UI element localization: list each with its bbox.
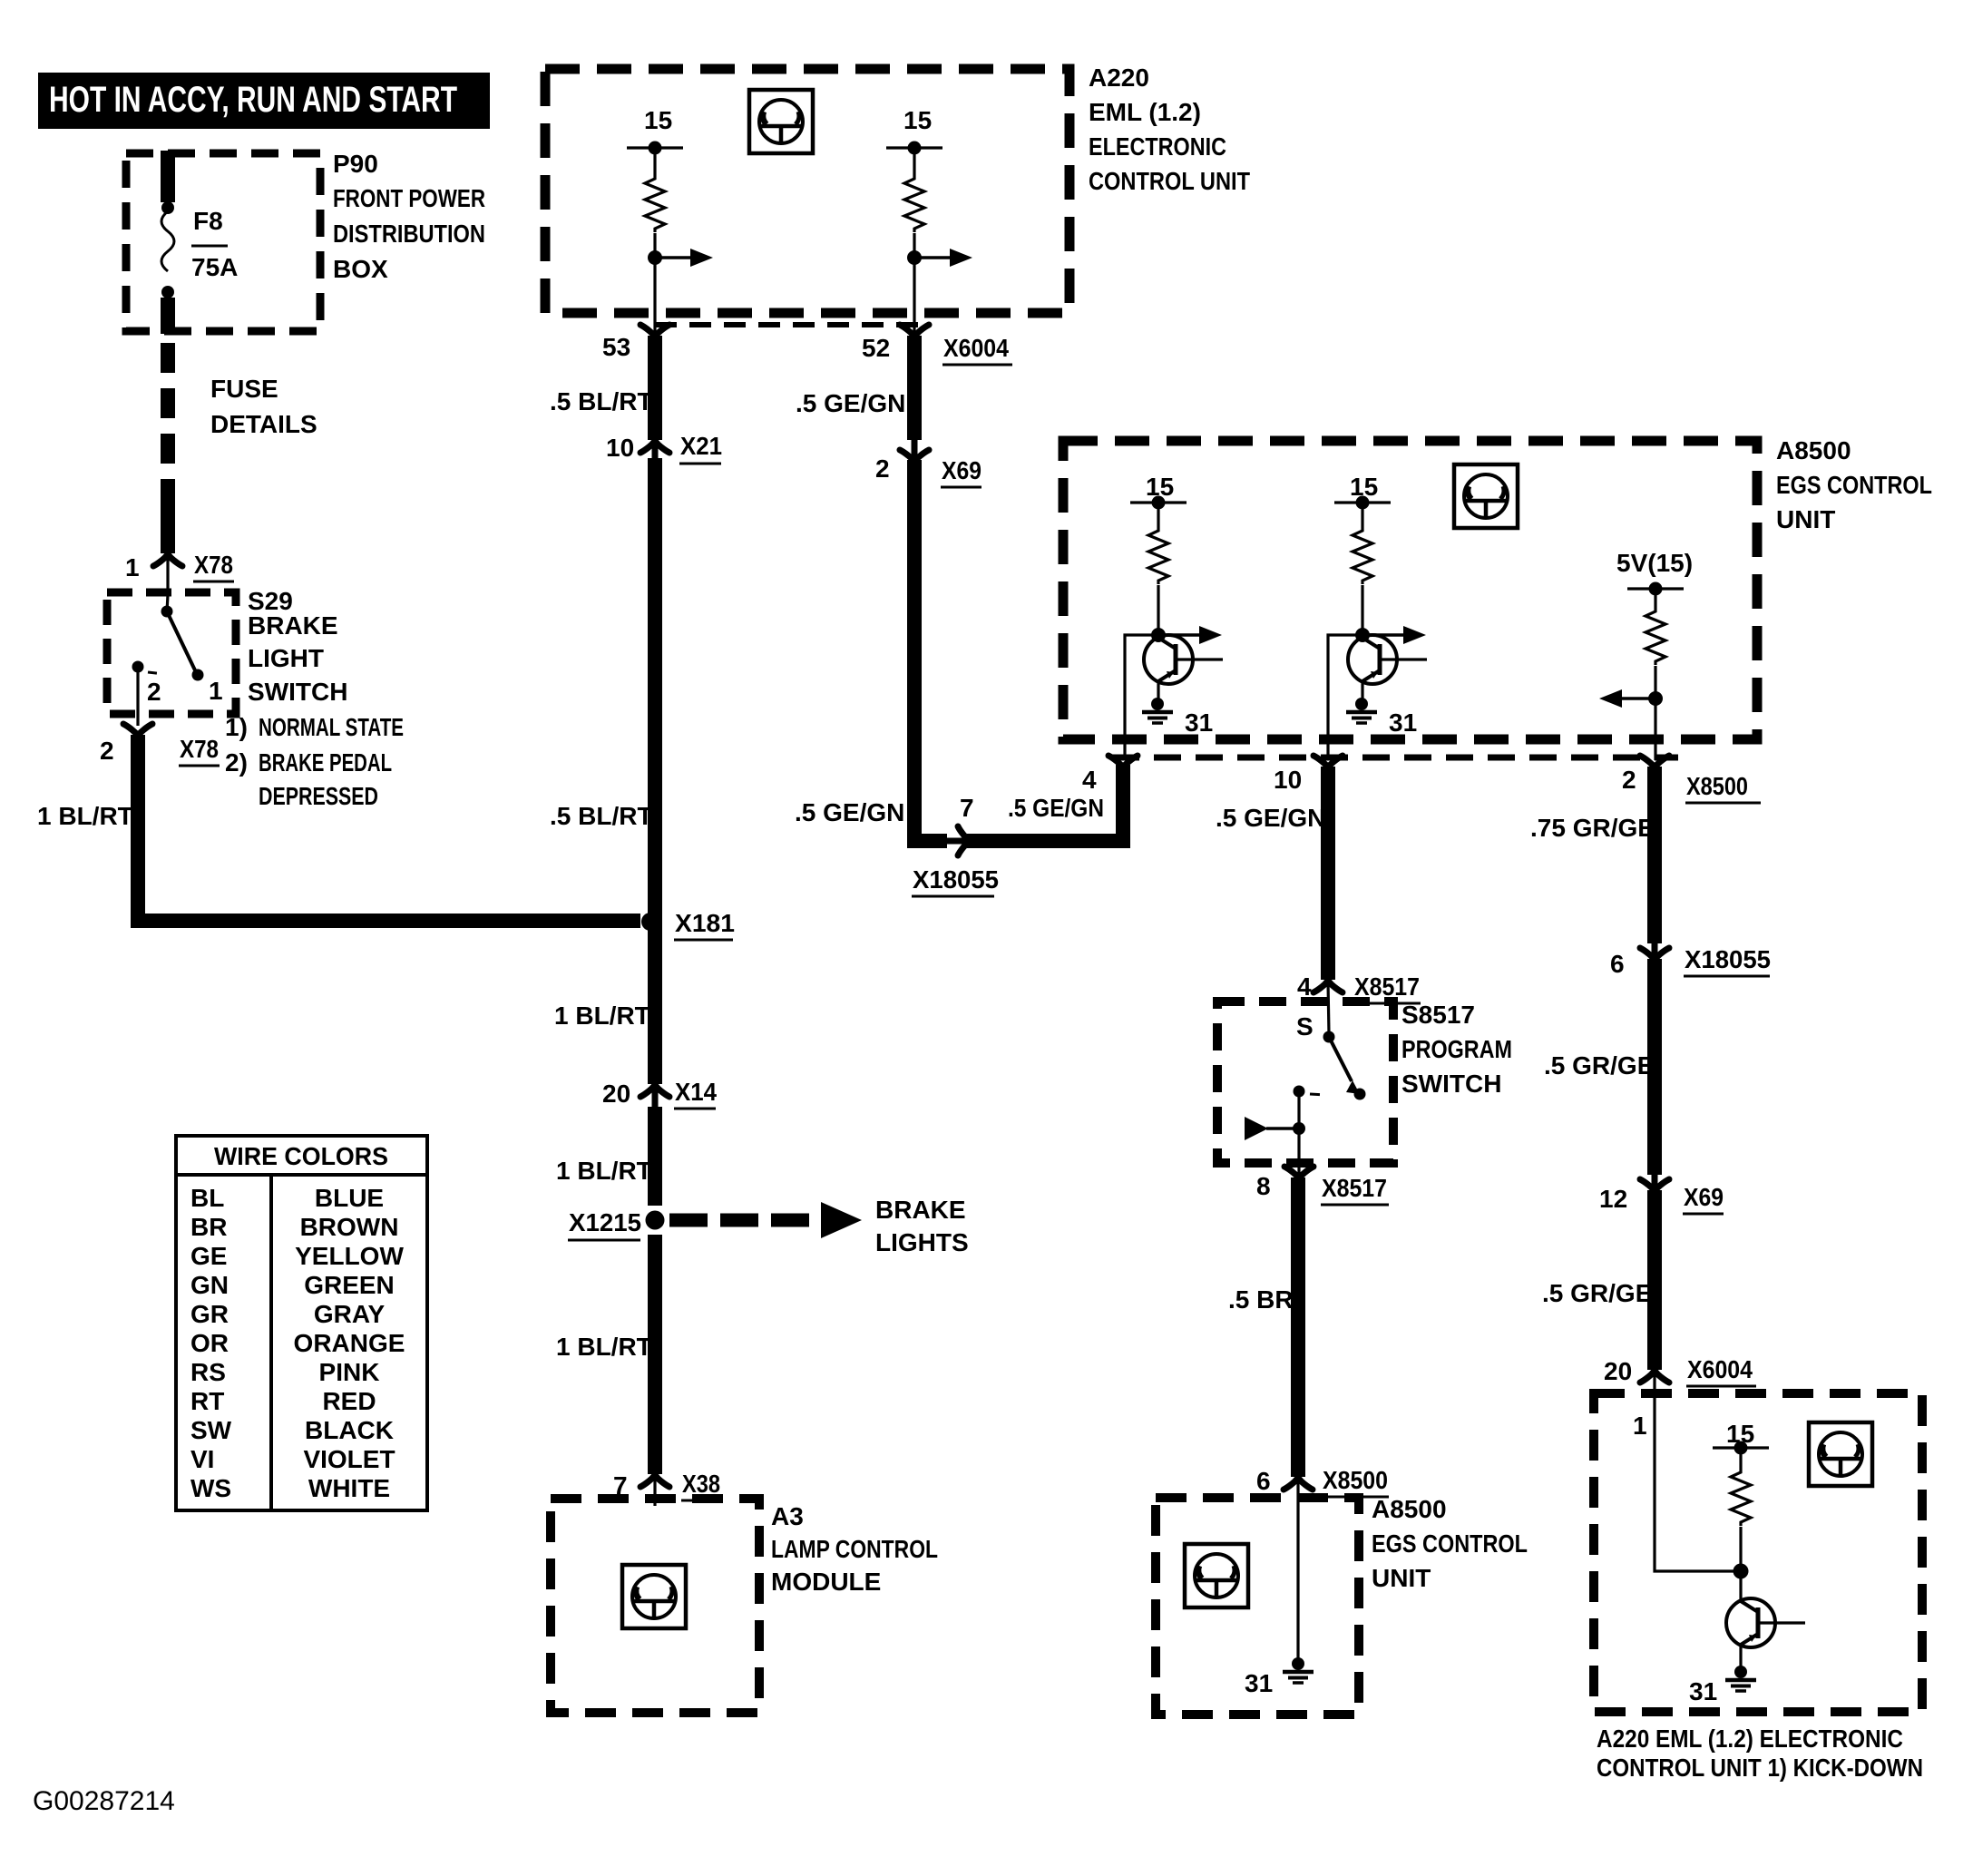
svg-text:A220: A220	[1089, 64, 1149, 92]
connector X6004 pin 52	[862, 325, 1012, 365]
wire: hot feed into fuse	[161, 151, 175, 202]
svg-text:YELLOW: YELLOW	[295, 1242, 404, 1270]
connector X8500 bar	[1112, 755, 1678, 761]
ground 31 (EGS left)	[1142, 698, 1213, 737]
svg-text:P90: P90	[333, 150, 378, 178]
wire: fuse output (dashed detail wire)	[161, 298, 175, 334]
svg-text:MODULE: MODULE	[771, 1568, 881, 1596]
svg-text:X21: X21	[680, 432, 722, 460]
svg-text:31: 31	[1185, 708, 1213, 737]
connector X78 pin 1	[125, 551, 234, 595]
wire .5 GE/GN (pin 10 to X8517 pin 4)	[1321, 767, 1335, 980]
svg-text:GE: GE	[190, 1242, 227, 1270]
resistor (EGS left)	[1148, 527, 1168, 584]
wire	[913, 148, 915, 175]
control unit logo (A8500 bottom)	[1185, 1544, 1248, 1607]
svg-text:X38: X38	[682, 1470, 720, 1498]
wire	[1654, 589, 1656, 608]
connector X78 pin 2	[100, 724, 220, 766]
node X1215	[568, 1208, 665, 1240]
wire	[1361, 503, 1363, 527]
svg-text:X6004: X6004	[943, 334, 1009, 362]
node X181	[641, 909, 735, 940]
node (EGS right junction)	[1648, 691, 1663, 706]
svg-text:8: 8	[1256, 1172, 1271, 1200]
svg-text:EGS CONTROL: EGS CONTROL	[1776, 471, 1932, 499]
arrow: output right (EGS mid)	[1362, 626, 1426, 644]
svg-text:X78: X78	[180, 735, 219, 763]
svg-text:A8500: A8500	[1372, 1495, 1447, 1523]
svg-text:A220 EML (1.2) ELECTRONIC: A220 EML (1.2) ELECTRONIC	[1597, 1725, 1903, 1753]
control unit logo (kick-down)	[1809, 1422, 1872, 1486]
svg-text:UNIT: UNIT	[1776, 505, 1835, 533]
connector X6004 pin 20	[1604, 1355, 1756, 1402]
wire .5 GE/GN (52 to X69)	[907, 336, 922, 440]
svg-text:LIGHTS: LIGHTS	[875, 1228, 969, 1256]
svg-text:.5 GE/GN: .5 GE/GN	[1008, 794, 1104, 822]
svg-text:10: 10	[606, 434, 634, 462]
svg-text:1: 1	[209, 677, 223, 705]
wire	[1361, 585, 1363, 639]
svg-text:52: 52	[862, 334, 890, 362]
svg-text:31: 31	[1245, 1669, 1273, 1697]
svg-text:GN: GN	[190, 1271, 229, 1299]
wire trunk 1 BL/RT (X21 down to X181)	[648, 458, 662, 922]
svg-text:BRAKE: BRAKE	[248, 611, 338, 640]
svg-text:PINK: PINK	[319, 1358, 380, 1386]
connector X6004 pin 53	[602, 325, 669, 361]
wire	[1157, 585, 1159, 639]
wire emitter to ground	[1361, 680, 1363, 699]
connector X69 pin 12	[1599, 1175, 1724, 1214]
svg-text:X6004: X6004	[1687, 1355, 1753, 1383]
svg-text:G00287214: G00287214	[33, 1786, 175, 1816]
svg-text:1 BL/RT: 1 BL/RT	[554, 1002, 650, 1030]
svg-text:VI: VI	[190, 1445, 214, 1473]
connector X38 pin 7	[613, 1470, 722, 1506]
svg-text:A8500: A8500	[1776, 436, 1851, 464]
svg-text:75A: 75A	[191, 253, 238, 281]
svg-text:RED: RED	[322, 1387, 376, 1415]
svg-text:UNIT: UNIT	[1372, 1564, 1431, 1592]
svg-text:X8500: X8500	[1323, 1466, 1388, 1494]
wire .5 GR/GE (X69 to X6004 pin 20)	[1647, 1190, 1662, 1370]
svg-text:4: 4	[1082, 766, 1097, 794]
svg-text:SWITCH: SWITCH	[1401, 1070, 1501, 1098]
connector X6004 bar	[655, 322, 931, 327]
svg-text:.5 GE/GN: .5 GE/GN	[796, 389, 905, 417]
svg-text:1: 1	[125, 553, 140, 581]
wire .5 GE/GN (X18055 to EGS pin 4)	[967, 765, 1123, 841]
connector X18055 pin 6	[1610, 943, 1771, 978]
arrow: output to right (EML right)	[914, 249, 972, 267]
svg-text:2: 2	[1622, 766, 1636, 794]
svg-text:VIOLET: VIOLET	[303, 1445, 395, 1473]
svg-text:OR: OR	[190, 1329, 229, 1357]
svg-text:X78: X78	[194, 551, 233, 579]
resistor (EML right)	[904, 175, 924, 232]
svg-text:5V(15): 5V(15)	[1616, 549, 1693, 577]
fuse F8 75A	[161, 201, 238, 298]
arrow: output to left (EGS right)	[1599, 689, 1655, 708]
wire 1 BL/RT from switch to X181	[138, 735, 640, 921]
resistor (EGS right)	[1646, 608, 1665, 665]
control unit A220 EML box (dashed)	[545, 69, 1069, 313]
node (EGS left junction)	[1151, 628, 1166, 642]
svg-text:BL: BL	[190, 1184, 224, 1212]
connector X8500 pin 10	[1274, 756, 1343, 794]
svg-text:1 BL/RT: 1 BL/RT	[37, 802, 133, 830]
svg-text:WS: WS	[190, 1474, 231, 1502]
svg-text:2: 2	[147, 678, 161, 706]
ground 31 (kick-down)	[1689, 1666, 1756, 1705]
svg-text:.5 BL/RT: .5 BL/RT	[550, 387, 653, 415]
connector X69 pin 2	[875, 440, 981, 487]
svg-text:15: 15	[644, 106, 672, 134]
svg-text:X69: X69	[942, 456, 981, 484]
svg-text:20: 20	[602, 1080, 630, 1108]
wire .5 GR/GE (X18055 to X69 pin 12)	[1647, 959, 1662, 1175]
wire .5 GE/GN (X69 down to X18055 corner)	[914, 460, 947, 841]
EGS control unit A8500 bottom box (dashed)	[1156, 1498, 1359, 1715]
label S29 BRAKE LIGHT SWITCH	[225, 587, 404, 810]
svg-text:BRAKE PEDAL: BRAKE PEDAL	[259, 748, 392, 777]
svg-text:1: 1	[1633, 1412, 1647, 1440]
switch S8517 contacts	[1294, 1012, 1366, 1159]
svg-text:2: 2	[875, 454, 890, 483]
connector X8517 pin 8	[1256, 1159, 1389, 1205]
svg-text:CONTROL UNIT: CONTROL UNIT	[1089, 167, 1250, 195]
svg-text:ORANGE: ORANGE	[294, 1329, 405, 1357]
wire emitter to ground	[1739, 1644, 1742, 1667]
wire to ground (A8500 bottom)	[1296, 1506, 1299, 1658]
label P90 FRONT POWER DISTRIBUTION BOX	[333, 150, 485, 283]
control unit logo (EML)	[749, 90, 813, 153]
wire: junction to pin 4	[1125, 635, 1158, 760]
svg-text:EGS CONTROL: EGS CONTROL	[1372, 1529, 1528, 1558]
svg-text:BRAKE: BRAKE	[875, 1196, 966, 1224]
svg-text:31: 31	[1389, 708, 1417, 737]
svg-text:DISTRIBUTION: DISTRIBUTION	[333, 220, 485, 248]
wire	[653, 148, 656, 175]
svg-text:DETAILS: DETAILS	[210, 410, 317, 438]
svg-text:GRAY: GRAY	[314, 1300, 386, 1328]
svg-text:.75 GR/GE: .75 GR/GE	[1530, 814, 1655, 842]
node: EML right output junction	[907, 250, 922, 265]
svg-text:GR: GR	[190, 1300, 229, 1328]
label A8500 EGS CONTROL UNIT	[1776, 436, 1932, 533]
connector X8500 pin 4	[1082, 756, 1138, 794]
arrow: output right (EGS left)	[1158, 626, 1222, 644]
svg-text:S8517: S8517	[1401, 1001, 1475, 1029]
fuse box P90 (dashed)	[126, 153, 320, 331]
svg-text:20: 20	[1604, 1357, 1632, 1385]
wire	[1654, 666, 1656, 760]
node (kick-down junction)	[1733, 1564, 1749, 1579]
wire emitter to ground	[1157, 680, 1159, 699]
svg-text:SWITCH: SWITCH	[248, 678, 347, 706]
resistor (EML left)	[645, 175, 665, 232]
svg-text:HOT IN ACCY, RUN AND START: HOT IN ACCY, RUN AND START	[49, 80, 457, 120]
EGS control unit A8500 box (dashed)	[1063, 441, 1757, 739]
wire	[653, 233, 656, 332]
transistor Q3 (kick-down)	[1726, 1598, 1805, 1647]
control unit A220 kick-down box (dashed)	[1594, 1393, 1922, 1712]
connector X8517 pin 4	[1297, 972, 1421, 1034]
connector X21 pin 10	[606, 432, 722, 464]
svg-text:53: 53	[602, 333, 630, 361]
svg-text:.5 GR/GE: .5 GR/GE	[1544, 1051, 1654, 1080]
wire: junction to pin 10	[1328, 635, 1362, 760]
svg-text:4: 4	[1297, 972, 1312, 1001]
svg-text:X8500: X8500	[1686, 772, 1748, 800]
program switch S8517 box (dashed)	[1217, 1002, 1393, 1163]
svg-text:1): 1)	[225, 713, 248, 741]
svg-text:BOX: BOX	[333, 255, 388, 283]
lamp control module A3 box (dashed)	[551, 1499, 759, 1713]
svg-text:SW: SW	[190, 1416, 232, 1444]
ground 31 (EGS mid)	[1346, 698, 1417, 737]
label A220 EML (1.2) ELECTRONIC CONTROL UNIT 1) KICK-DOWN	[1597, 1725, 1923, 1782]
svg-text:RT: RT	[190, 1387, 224, 1415]
svg-text:F8: F8	[193, 207, 223, 235]
svg-text:X181: X181	[675, 909, 735, 937]
arrow: output to right (EML left)	[655, 249, 713, 267]
wire .75 GR/GE (pin 2 down)	[1647, 767, 1662, 943]
svg-text:A3: A3	[771, 1502, 804, 1530]
svg-text:WIRE COLORS: WIRE COLORS	[214, 1142, 388, 1170]
ground 31 (A8500 bottom)	[1245, 1657, 1314, 1697]
wire .5 BR (X8517 to X8500 pin 6)	[1291, 1177, 1305, 1477]
svg-text:BR: BR	[190, 1213, 227, 1241]
svg-text:EML (1.2): EML (1.2)	[1089, 98, 1201, 126]
svg-text:31: 31	[1689, 1677, 1717, 1705]
svg-text:12: 12	[1599, 1185, 1627, 1213]
arrow input (S8517)	[1245, 1117, 1305, 1140]
resistor (kick-down)	[1731, 1469, 1751, 1526]
svg-text:10: 10	[1274, 766, 1302, 794]
svg-text:X1215: X1215	[569, 1208, 641, 1236]
wire	[1157, 503, 1159, 527]
svg-text:2: 2	[100, 737, 114, 765]
connector X18055 pin 7 (horizontal)	[912, 794, 999, 896]
brake light switch S29 (dashed box)	[107, 592, 236, 714]
wire pin 1 into kick-down	[1633, 1402, 1741, 1571]
wire 1 BL/RT (X1215 to X38)	[648, 1235, 662, 1474]
connector X14 pin 20	[602, 1078, 717, 1109]
wire	[1739, 1448, 1742, 1469]
svg-text:X8517: X8517	[1354, 972, 1420, 1001]
node (EGS mid junction)	[1355, 628, 1370, 642]
svg-text:.5 GR/GE: .5 GR/GE	[1542, 1279, 1652, 1307]
svg-text:X14: X14	[675, 1078, 717, 1106]
svg-text:7: 7	[960, 794, 974, 822]
svg-text:ELECTRONIC: ELECTRONIC	[1089, 132, 1226, 161]
svg-text:WHITE: WHITE	[308, 1474, 390, 1502]
transistor Q1 (EGS left)	[1144, 635, 1223, 684]
svg-text:BLUE: BLUE	[315, 1184, 384, 1212]
svg-text:6: 6	[1610, 950, 1625, 978]
svg-text:X18055: X18055	[913, 865, 999, 894]
svg-text:15: 15	[903, 106, 932, 134]
resistor (EGS mid)	[1353, 527, 1372, 584]
svg-text:GREEN: GREEN	[304, 1271, 395, 1299]
wire: dashed arrow to brake lights	[669, 1196, 969, 1256]
wire	[913, 233, 915, 332]
svg-text:1 BL/RT: 1 BL/RT	[556, 1333, 652, 1361]
svg-text:6: 6	[1256, 1467, 1271, 1495]
label A8500 EGS CONTROL UNIT (bottom)	[1372, 1495, 1528, 1592]
connector X8500 pin 2	[1622, 756, 1761, 803]
svg-text:BLACK: BLACK	[305, 1416, 394, 1444]
svg-text:FUSE: FUSE	[210, 375, 278, 403]
svg-text:RS: RS	[190, 1358, 226, 1386]
connector X8500 pin 6	[1256, 1466, 1389, 1506]
svg-text:NORMAL STATE: NORMAL STATE	[259, 713, 404, 741]
wire	[1739, 1527, 1742, 1602]
svg-text:LIGHT: LIGHT	[248, 644, 324, 672]
switch S29 contacts	[132, 595, 223, 726]
svg-text:X18055: X18055	[1685, 945, 1771, 973]
svg-text:X8517: X8517	[1322, 1174, 1387, 1202]
svg-text:.5 BL/RT: .5 BL/RT	[550, 802, 653, 830]
label A220 EML (1.2) ELECTRONIC CONTROL UNIT	[1089, 64, 1250, 195]
title: HOT IN ACCY, RUN AND START	[38, 73, 490, 129]
svg-text:.5 GE/GN: .5 GE/GN	[1216, 804, 1325, 832]
control unit logo (A3)	[622, 1565, 686, 1628]
svg-text:LAMP CONTROL: LAMP CONTROL	[771, 1535, 938, 1563]
wire 1 BL/RT (X181 to X14)	[648, 922, 662, 1084]
svg-text:CONTROL UNIT 1) KICK-DOWN: CONTROL UNIT 1) KICK-DOWN	[1597, 1754, 1923, 1782]
control unit logo (EGS)	[1454, 464, 1518, 528]
label A3 LAMP CONTROL MODULE	[771, 1502, 938, 1596]
transistor Q2 (EGS mid)	[1348, 635, 1427, 684]
label FUSE DETAILS	[210, 375, 317, 438]
svg-text:S: S	[1296, 1012, 1314, 1041]
svg-text:BROWN: BROWN	[300, 1213, 399, 1241]
wire .5 BL/RT (53 to X21)	[648, 336, 662, 440]
label S8517 PROGRAM SWITCH	[1401, 1001, 1512, 1098]
svg-text:X69: X69	[1684, 1183, 1724, 1211]
svg-text:.5 BR: .5 BR	[1228, 1285, 1294, 1314]
node: EML left output junction	[648, 250, 662, 265]
wire 1 BL/RT (X14 to X1215)	[648, 1107, 662, 1206]
svg-text:PROGRAM: PROGRAM	[1401, 1035, 1512, 1063]
svg-text:DEPRESSED: DEPRESSED	[259, 782, 378, 810]
svg-text:.5 GE/GN: .5 GE/GN	[795, 798, 904, 826]
wire colors legend table	[176, 1136, 427, 1510]
svg-text:2): 2)	[225, 748, 248, 777]
svg-text:1 BL/RT: 1 BL/RT	[556, 1157, 652, 1185]
svg-text:FRONT POWER: FRONT POWER	[333, 184, 485, 212]
